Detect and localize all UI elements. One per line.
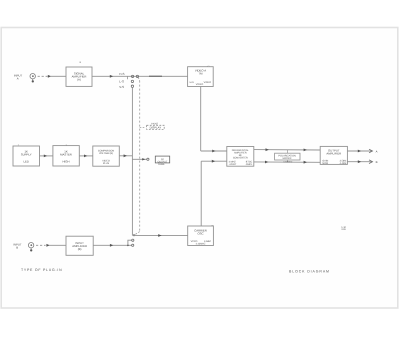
- box comparison voltages: [93, 146, 120, 166]
- wire amplifier A to video box: [92, 75, 188, 77]
- connector circle V-S: [131, 85, 133, 87]
- connector circle output jack: [147, 158, 149, 160]
- junction tick: [127, 76, 129, 79]
- wire input A dashed lead: [38, 75, 48, 77]
- connector circle L-S: [131, 80, 133, 82]
- arrow: [124, 154, 127, 157]
- arrow on wire: [110, 75, 113, 78]
- arrow on stub: [142, 158, 145, 160]
- arrow: [265, 161, 268, 164]
- wire bus stub to output jack: [132, 158, 146, 160]
- connector J2 (input B jack): [28, 243, 33, 252]
- arrow: [304, 161, 307, 164]
- svg-text:4.43M: 4.43M: [340, 162, 347, 165]
- svg-text:AMPL: AMPL: [246, 163, 253, 166]
- dashed diagonal joining corner: [134, 232, 139, 235]
- svg-text:FIG: FIG: [342, 228, 346, 231]
- box output amplifier: [320, 146, 347, 164]
- connector J1 (input A jack): [30, 74, 35, 83]
- wire master to comparison: [79, 155, 93, 157]
- wire to input amplifier B: [49, 244, 66, 246]
- svg-text:B: B: [376, 160, 378, 164]
- svg-text:MASTER: MASTER: [60, 152, 72, 156]
- arrow mid output A: [358, 150, 361, 153]
- svg-text:LED: LED: [23, 160, 28, 164]
- box input amplifier B: [66, 236, 93, 255]
- svg-text:(B): (B): [78, 247, 82, 251]
- arrow into input amplifier B: [46, 244, 49, 247]
- junction dot: [127, 244, 129, 246]
- svg-text:AMPLIFIER: AMPLIFIER: [326, 152, 341, 156]
- wire branch up: [128, 240, 132, 245]
- arrow: [158, 234, 161, 237]
- svg-text:A: A: [376, 149, 378, 153]
- wire vertical solid bus from V-S down: [131, 87, 133, 235]
- connector circle B lower jack: [132, 244, 134, 246]
- svg-text:VIDEO: VIDEO: [204, 81, 212, 84]
- svg-text:MATRIX: MATRIX: [283, 157, 292, 160]
- arrow: [84, 155, 87, 158]
- arrow on top converter input: [212, 150, 215, 153]
- box RF converter: [227, 147, 254, 167]
- wire converter to output amp (bottom): [254, 161, 320, 163]
- wire input B dashed lead: [36, 244, 46, 246]
- svg-text:V-S: V-S: [119, 85, 124, 89]
- wire supply to master: [40, 155, 53, 157]
- svg-text:B: B: [16, 245, 18, 249]
- wire bus corner to carrier osc: [132, 234, 187, 236]
- junction dot at bus corner: [133, 234, 135, 236]
- wire output B: [347, 161, 371, 163]
- wire converter to output amp (top): [254, 149, 320, 151]
- arrow mid output B: [358, 160, 361, 163]
- dashed stub to display: [140, 127, 146, 129]
- svg-text:3.58MHZ: 3.58MHZ: [283, 161, 293, 164]
- box polarization matrix: [286, 150, 288, 154]
- wire carrier osc up: [200, 161, 202, 226]
- arrow into input amplifier A: [48, 75, 51, 78]
- svg-text:DISPLAY: DISPLAY: [150, 126, 162, 130]
- wire output A: [347, 150, 371, 152]
- wire corner to converter (bottom): [201, 160, 227, 162]
- svg-text:H-S: H-S: [190, 81, 195, 84]
- svg-text:H-S: H-S: [119, 72, 124, 76]
- arrow on bottom converter input: [212, 160, 215, 163]
- arrow: [304, 149, 307, 152]
- arrow on wire (second): [149, 75, 162, 77]
- wire vertical dashed patch line: [139, 81, 141, 232]
- svg-text:SUPPLY: SUPPLY: [21, 152, 32, 156]
- box 1k output: [155, 156, 169, 163]
- arrow: [266, 148, 269, 151]
- box carrier oscillator: [188, 226, 214, 246]
- node INPUT B label: [13, 242, 22, 249]
- node INPUT A label: [14, 73, 23, 80]
- box video processor: [188, 67, 214, 87]
- wire comparison to bus: [119, 155, 132, 157]
- wire video box down: [200, 87, 202, 152]
- svg-text:VIDEO: VIDEO: [196, 83, 204, 86]
- svg-text:BLOCK DIAGRAM: BLOCK DIAGRAM: [289, 270, 330, 274]
- svg-text:PLUS: PLUS: [103, 162, 110, 165]
- svg-text:L-S: L-S: [119, 79, 124, 83]
- arrow: [110, 244, 113, 247]
- svg-text:+VERT: +VERT: [229, 163, 237, 166]
- svg-text:HIGH: HIGH: [63, 160, 70, 164]
- box 1k master: [53, 146, 79, 166]
- svg-text:9-836: 9-836: [158, 163, 165, 166]
- connector circles H-S pair: [131, 75, 138, 77]
- box input amplifier A: [66, 67, 92, 86]
- connector circle B upper jack: [132, 239, 134, 241]
- svg-text:A: A: [17, 76, 19, 80]
- svg-text:(A): (A): [77, 78, 81, 82]
- dashed diagonal from H-S jack: [138, 77, 139, 80]
- arrow: [44, 155, 47, 158]
- svg-text:NOM: NOM: [322, 162, 328, 165]
- wire amplifier B to jacks: [93, 244, 131, 246]
- svg-text:7M: 7M: [199, 72, 204, 76]
- open arrowhead output A: [369, 149, 373, 153]
- wire corner to converter (top): [201, 150, 227, 152]
- box 1k supply LED: [13, 146, 40, 166]
- svg-text:4.43MHZ: 4.43MHZ: [196, 243, 206, 246]
- svg-text:VOLTAGE(S): VOLTAGE(S): [99, 152, 113, 155]
- svg-text:CONVERTER: CONVERTER: [233, 156, 248, 159]
- label fig number: [341, 226, 346, 231]
- svg-text:OSC: OSC: [197, 232, 203, 236]
- svg-text:TYPE OF PLUG-IN: TYPE OF PLUG-IN: [21, 268, 62, 272]
- open arrowhead output B: [369, 160, 373, 164]
- box display (dashed): [147, 125, 165, 129]
- wire to input amplifier A: [51, 75, 67, 77]
